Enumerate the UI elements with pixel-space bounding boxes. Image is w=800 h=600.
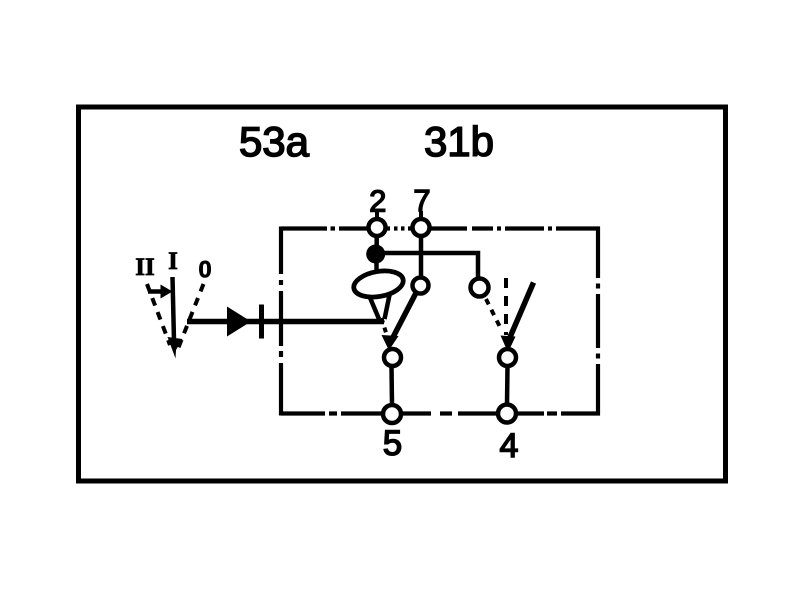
- wire terminal 2 to junction: [374, 236, 379, 248]
- svg-text:4: 4: [500, 427, 519, 465]
- switch enclosure left edge dash-dot: [279, 227, 283, 416]
- actuator shaft wire: [187, 319, 384, 325]
- outer frame: [79, 107, 726, 481]
- terminal 5 circle: [383, 405, 401, 423]
- actuator detent bar: [259, 305, 264, 339]
- center contact arrowhead: [382, 335, 399, 352]
- svg-text:5: 5: [383, 424, 402, 463]
- terminal 2 stub: [375, 211, 379, 220]
- junction dot node: [366, 245, 385, 264]
- contact B circle: [471, 279, 489, 297]
- svg-text:0: 0: [198, 257, 211, 284]
- right pivot circle: [499, 349, 516, 366]
- svg-text:31b: 31b: [424, 118, 494, 165]
- rotor funnel left leg: [370, 297, 380, 320]
- svg-text:2: 2: [369, 184, 386, 219]
- terminal 7 stub: [419, 211, 423, 220]
- rotor funnel right leg: [385, 295, 390, 319]
- lever position 0 dashed line: [178, 284, 204, 350]
- svg-text:I: I: [168, 248, 178, 275]
- switch enclosure bottom edge dash-dot: [281, 411, 600, 415]
- contact A circle: [413, 278, 429, 294]
- svg-text:53a: 53a: [239, 118, 310, 165]
- wire right pivot to terminal 4: [505, 366, 510, 405]
- lever position II dashed line: [147, 284, 170, 345]
- wire center pivot to terminal 5: [389, 366, 394, 405]
- center moving contact arm: [390, 291, 417, 343]
- terminal 2 circle: [369, 219, 386, 236]
- rotor cam ellipse: [352, 267, 406, 300]
- actuator arrowhead: [227, 307, 251, 337]
- center pivot circle: [384, 349, 401, 366]
- direction arrow shaft toward II: [148, 289, 163, 294]
- right contact arrowhead: [501, 336, 516, 353]
- right contact dashed vertical: [504, 278, 508, 335]
- stub junction to rotor: [374, 262, 379, 272]
- lever position I solid line: [173, 277, 175, 341]
- switch enclosure top edge dash-dot: [281, 226, 600, 230]
- direction arrow head: [161, 285, 173, 299]
- right contact dashed slant: [486, 299, 502, 331]
- lever arrowhead: [168, 337, 183, 359]
- center contact dashed rest segment: [382, 318, 388, 336]
- terminal 4 circle: [498, 405, 516, 423]
- wire terminal 7 down to contact A: [419, 236, 424, 278]
- switch enclosure right edge dash-dot: [596, 227, 600, 416]
- right moving contact arm: [508, 283, 534, 344]
- wire junction to contact B corner: [376, 253, 478, 278]
- svg-text:II: II: [135, 254, 154, 281]
- terminal 7 circle: [413, 219, 430, 236]
- svg-text:7: 7: [413, 183, 430, 218]
